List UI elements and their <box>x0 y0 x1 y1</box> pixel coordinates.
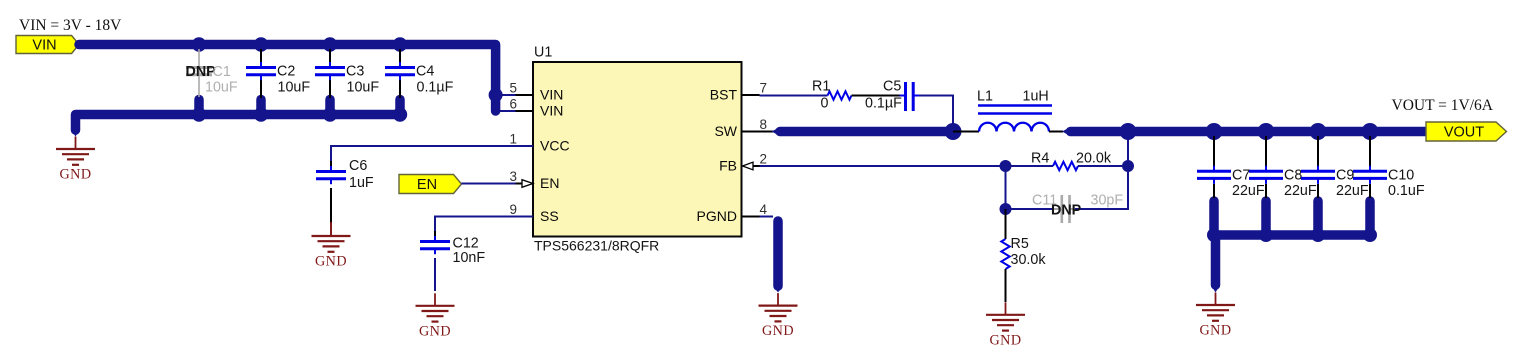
resistor R1 <box>828 91 852 99</box>
resistor R5 <box>1001 239 1009 269</box>
wire SW dot to L1 <box>953 131 979 133</box>
svg-text:5: 5 <box>509 81 517 96</box>
wire FB node down to C11 row <box>1005 166 1007 209</box>
svg-text:22uF: 22uF <box>1336 183 1369 199</box>
wire stubs caps to ground rail <box>194 100 204 113</box>
svg-text:VCC: VCC <box>540 138 570 154</box>
capacitor C1 (DNP, grayed) <box>186 49 212 97</box>
wire FB divider node down to R5 <box>1005 209 1007 239</box>
junction dots on input ground rail <box>192 107 206 121</box>
svg-text:20.0k: 20.0k <box>1076 151 1112 167</box>
svg-text:VOUT = 1V/6A: VOUT = 1V/6A <box>1392 97 1494 114</box>
wire: VIN top rail to U1 pins 5/6 <box>79 45 496 112</box>
svg-text:10uF: 10uF <box>205 80 238 96</box>
junction dot R4 right node <box>1122 160 1134 172</box>
ground R5 <box>986 302 1025 330</box>
svg-text:4: 4 <box>760 202 768 217</box>
svg-text:GND: GND <box>315 254 347 270</box>
pin 4 PGND of U1 <box>697 202 768 224</box>
svg-text:2: 2 <box>760 152 768 167</box>
wire R5 to GND <box>1005 269 1007 302</box>
svg-text:EN: EN <box>417 177 437 193</box>
svg-text:0: 0 <box>821 96 829 112</box>
wire output rail to GND drop <box>1211 235 1221 293</box>
ground C12 <box>416 293 455 321</box>
svg-text:22uF: 22uF <box>1284 183 1317 199</box>
svg-text:C6: C6 <box>349 158 367 174</box>
junction dots on output ground rail <box>1207 228 1221 242</box>
svg-text:GND: GND <box>1200 323 1232 339</box>
svg-text:PGND: PGND <box>697 208 737 224</box>
svg-text:0.1uF: 0.1uF <box>1388 183 1425 199</box>
svg-text:C1: C1 <box>213 64 231 80</box>
wire EN flag to pin 3 <box>462 183 516 185</box>
svg-text:TPS566231/8RQFR: TPS566231/8RQFR <box>534 238 659 254</box>
svg-text:10uF: 10uF <box>347 80 380 96</box>
junction dots on VIN rail <box>192 37 206 51</box>
svg-text:3: 3 <box>509 169 517 184</box>
svg-text:0.1µF: 0.1µF <box>865 96 902 112</box>
junction dot SW node <box>945 123 962 140</box>
svg-text:10nF: 10nF <box>453 250 486 266</box>
capacitor C10 <box>1353 136 1387 198</box>
junction dot at U1 VIN feed <box>489 88 503 102</box>
svg-text:DNP: DNP <box>1051 203 1082 219</box>
wire BST pin7 to R1 <box>760 95 828 97</box>
svg-text:SW: SW <box>714 123 737 139</box>
pin 8 SW of U1 <box>714 117 767 139</box>
svg-text:VOUT: VOUT <box>1444 124 1484 140</box>
svg-text:0.1µF: 0.1µF <box>417 80 454 96</box>
wire C5 down to SW node <box>919 96 953 127</box>
wire VCC pin1 to C6 <box>331 146 533 161</box>
wire C6 to GND stem <box>330 222 332 236</box>
wire: input bottom ground rail <box>76 115 401 131</box>
ground output <box>1196 293 1235 321</box>
svg-text:VIN: VIN <box>540 103 563 119</box>
svg-text:7: 7 <box>760 81 768 96</box>
pin 6 VIN of U1 <box>509 97 563 119</box>
svg-text:L1: L1 <box>977 89 993 105</box>
svg-text:U1: U1 <box>534 45 552 61</box>
resistor R4 <box>1053 162 1078 170</box>
svg-text:C8: C8 <box>1284 168 1302 184</box>
svg-text:R4: R4 <box>1031 151 1049 167</box>
wire FB pin2 to divider node <box>760 165 1006 167</box>
capacitor C8 <box>1249 136 1283 198</box>
svg-text:10uF: 10uF <box>278 80 311 96</box>
pin 9 SS of U1 <box>509 202 558 224</box>
svg-text:C3: C3 <box>346 64 364 80</box>
wire C11 row left segment <box>1006 208 1054 210</box>
svg-text:VIN: VIN <box>32 37 56 53</box>
pin 1 VCC of U1 <box>509 132 569 154</box>
wire FB node to R4 <box>1006 165 1054 167</box>
svg-text:VIN: VIN <box>540 87 563 103</box>
capacitor C12 <box>420 231 450 291</box>
svg-text:6: 6 <box>509 97 517 112</box>
wire output ground rail <box>1214 230 1370 240</box>
svg-text:FB: FB <box>719 158 737 174</box>
pin 2 FB of U1 <box>719 152 779 174</box>
ground PGND <box>759 293 798 321</box>
svg-text:C9: C9 <box>1336 168 1354 184</box>
svg-text:22uF: 22uF <box>1232 183 1265 199</box>
svg-text:C7: C7 <box>1232 168 1250 184</box>
junction dots output caps on rail <box>1206 123 1223 140</box>
capacitor C9 <box>1301 136 1335 198</box>
svg-text:C5: C5 <box>883 79 901 95</box>
svg-text:8: 8 <box>760 117 768 132</box>
svg-text:30.0k: 30.0k <box>1011 252 1047 268</box>
capacitor C4 <box>385 49 415 98</box>
svg-text:SS: SS <box>540 208 559 224</box>
wire PGND pin4 stub to GND <box>760 217 783 293</box>
wire tap node up to rail and down to C11 <box>1075 132 1128 210</box>
svg-text:GND: GND <box>60 167 92 183</box>
svg-text:1uH: 1uH <box>1023 89 1049 105</box>
pin 5 VIN of U1 <box>509 81 563 103</box>
power port flag VOUT <box>1426 122 1507 141</box>
svg-text:1: 1 <box>509 132 517 147</box>
svg-text:C10: C10 <box>1388 168 1414 184</box>
pin 7 BST of U1 <box>710 81 767 103</box>
svg-text:GND: GND <box>990 332 1022 348</box>
junction dot FB tap on rail <box>1120 123 1137 140</box>
junction dot FB node <box>1000 160 1012 172</box>
inductor L1 <box>978 106 1052 132</box>
svg-text:R5: R5 <box>1011 236 1029 252</box>
wire vertical feed to pin 5 <box>496 94 516 96</box>
svg-text:R1: R1 <box>812 79 830 95</box>
svg-text:BST: BST <box>710 87 738 103</box>
wire VOUT thick rail <box>1062 127 1426 137</box>
capacitor C11 (DNP, grayed) <box>1053 195 1075 223</box>
pin 3 EN of U1 <box>509 169 559 191</box>
power port flag EN <box>399 175 462 194</box>
svg-text:C4: C4 <box>416 64 434 80</box>
svg-text:EN: EN <box>540 175 559 191</box>
wire: stub to left GND <box>71 129 81 137</box>
capacitor C7 <box>1197 136 1231 198</box>
svg-text:GND: GND <box>419 323 451 339</box>
power port flag VIN <box>16 36 79 54</box>
wire R4 to VOUT tap <box>1078 165 1128 167</box>
svg-text:30pF: 30pF <box>1091 193 1124 209</box>
wire R1 to C5 <box>852 95 900 97</box>
wire SW pin8 thick <box>760 127 954 137</box>
ground C6 <box>312 224 351 252</box>
capacitor C5 <box>900 82 920 111</box>
wire vertical feed to pin 6 <box>496 110 516 112</box>
capacitor C6 <box>316 161 346 224</box>
svg-text:9: 9 <box>509 202 517 217</box>
svg-text:VIN = 3V - 18V: VIN = 3V - 18V <box>19 17 122 34</box>
capacitor C3 <box>315 49 345 98</box>
ground input <box>56 137 95 165</box>
junction dot C11/R5 node <box>1000 203 1012 215</box>
wire SS pin9 to C12 <box>435 217 533 232</box>
svg-text:GND: GND <box>762 323 794 339</box>
capacitor C2 <box>246 49 276 98</box>
wire L1 to output rail <box>1049 131 1063 133</box>
wire stubs output caps to ground rail <box>1209 201 1219 230</box>
op-amp U1 TPS566231/8RQFR body <box>533 62 742 237</box>
svg-text:1uF: 1uF <box>349 175 374 191</box>
svg-text:C2: C2 <box>277 64 295 80</box>
